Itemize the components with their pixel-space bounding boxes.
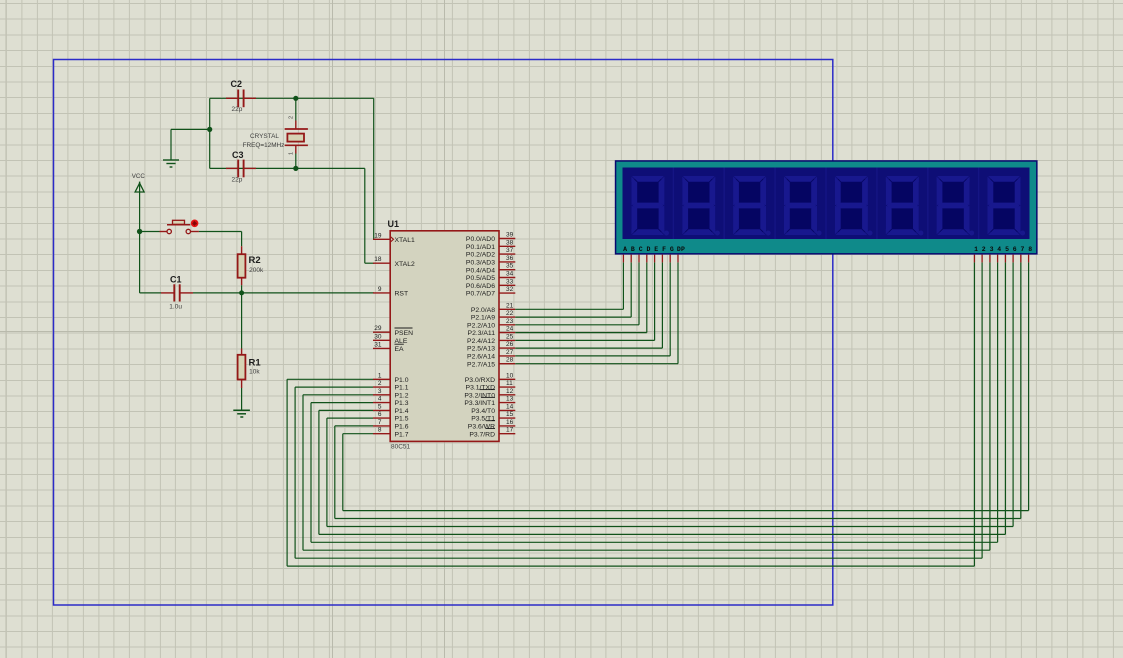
svg-text:11: 11	[506, 380, 513, 387]
wire P2.5 to display segment F	[515, 262, 662, 348]
display digit separator 1	[672, 168, 674, 240]
svg-text:P2.7/A15: P2.7/A15	[467, 361, 495, 368]
resistor R1	[238, 349, 246, 411]
svg-text:80C51: 80C51	[391, 444, 411, 451]
svg-text:P3.5/T1: P3.5/T1	[471, 416, 495, 423]
svg-text:PSEN: PSEN	[395, 330, 414, 337]
svg-text:P0.0/AD0: P0.0/AD0	[466, 236, 495, 243]
svg-text:23: 23	[506, 318, 514, 325]
display digit 3 (7-segment 8)	[733, 176, 771, 236]
wire P2.3 to display segment D	[515, 262, 647, 332]
display digit pin 4 stub	[997, 255, 999, 263]
red actuator dot (button)	[191, 220, 199, 228]
wire crystal bottom lead	[295, 154, 297, 169]
svg-text:25: 25	[506, 333, 514, 340]
svg-text:28: 28	[506, 357, 514, 364]
pin 19 XTAL1 (U1 left)	[373, 232, 415, 244]
label 80C51	[391, 444, 411, 451]
display digit separator 4	[825, 168, 827, 240]
pin 13 P3.3/INT1 (U1 right)	[464, 396, 515, 408]
svg-text:2: 2	[378, 380, 382, 387]
svg-text:29: 29	[374, 325, 382, 332]
svg-text:CRYSTAL: CRYSTAL	[250, 133, 279, 140]
wire P1.0 to display digit 1	[287, 262, 974, 566]
svg-text:EA: EA	[395, 346, 405, 353]
svg-text:4: 4	[997, 246, 1001, 253]
node junction vcc-button	[137, 229, 142, 234]
svg-text:22p: 22p	[232, 177, 243, 184]
svg-text:6: 6	[1013, 246, 1017, 253]
pin 29 PSEN (U1 left)	[373, 325, 413, 337]
pin 22 P2.1/A9 (U1 right)	[471, 310, 515, 322]
capacitor C2	[226, 90, 256, 108]
display segment pin C stub	[638, 255, 640, 263]
svg-text:17: 17	[506, 427, 514, 434]
display digit separator 5	[876, 168, 878, 240]
pin 23 P2.2/A10 (U1 right)	[467, 318, 515, 330]
svg-text:P1.5: P1.5	[395, 416, 409, 423]
svg-text:30: 30	[374, 333, 382, 340]
svg-text:1: 1	[974, 246, 978, 253]
pin 4 P1.3 (U1 left)	[373, 396, 409, 408]
svg-text:P1.3: P1.3	[395, 400, 409, 407]
svg-text:P1.6: P1.6	[395, 424, 409, 431]
pin 12 P3.2/INT0 (U1 right)	[464, 388, 515, 400]
pin 36 P0.3/AD3 (U1 right)	[466, 255, 515, 267]
svg-text:DP: DP	[677, 246, 685, 253]
display digit pin 7 stub	[1020, 255, 1022, 263]
svg-text:38: 38	[506, 239, 514, 246]
svg-text:P3.7/RD: P3.7/RD	[469, 431, 495, 438]
svg-text:C1: C1	[170, 275, 182, 285]
display pin label F	[662, 246, 666, 253]
svg-text:A: A	[623, 246, 627, 253]
wire ground branch	[171, 129, 210, 159]
label C3	[232, 150, 244, 160]
svg-text:C: C	[639, 246, 643, 253]
wire vcc to button	[140, 231, 160, 233]
wire P1.4 to display digit 5	[319, 262, 1006, 534]
pin 34 P0.5/AD5 (U1 right)	[466, 271, 515, 283]
value 200k	[249, 267, 264, 274]
svg-text:36: 36	[506, 255, 514, 262]
svg-text:10: 10	[506, 372, 514, 379]
pin 32 P0.7/AD7 (U1 right)	[466, 286, 515, 298]
wire XTAL1 net top	[210, 98, 374, 239]
display pin label 6	[1013, 246, 1017, 253]
pin 15 P3.5/T1 (U1 right)	[471, 411, 515, 423]
svg-text:P2.5/A13: P2.5/A13	[467, 346, 495, 353]
display digit separator 3	[774, 168, 776, 240]
wire XTAL2 net bottom	[210, 168, 374, 263]
svg-text:39: 39	[506, 232, 514, 239]
wire P1.7 to display digit 8	[343, 262, 1029, 510]
wire P1.2 to display digit 3	[303, 262, 990, 550]
svg-text:E: E	[654, 246, 658, 253]
svg-text:13: 13	[506, 396, 514, 403]
wire vcc-node down to C1	[140, 232, 161, 293]
svg-text:P3.4/T0: P3.4/T0	[471, 408, 495, 415]
pin 16 P3.6/WR (U1 right)	[468, 419, 516, 431]
pin 2 P1.1 (U1 left)	[373, 380, 409, 392]
svg-text:XTAL2: XTAL2	[395, 261, 415, 268]
pin 8 P1.7 (U1 left)	[373, 427, 409, 439]
display pin label 1	[974, 246, 978, 253]
value FREQ=12MHz	[243, 142, 285, 149]
display digit 7 (7-segment 8)	[937, 176, 975, 236]
pin 10 P3.0/RXD (U1 right)	[465, 372, 516, 384]
svg-text:27: 27	[506, 349, 514, 356]
wire RST net	[193, 292, 374, 294]
svg-text:XTAL1: XTAL1	[395, 237, 415, 244]
svg-text:10k: 10k	[249, 369, 260, 376]
svg-text:P0.6/AD6: P0.6/AD6	[466, 283, 495, 290]
svg-text:P2.1/A9: P2.1/A9	[471, 315, 495, 322]
wire P1.1 to display digit 2	[295, 262, 982, 558]
svg-text:U1: U1	[388, 219, 400, 229]
display digit separator 2	[723, 168, 725, 240]
display digit pin 1 stub	[973, 255, 975, 263]
display pin label 4	[997, 246, 1001, 253]
display digit 8 (7-segment 8)	[988, 176, 1026, 236]
svg-text:P2.3/A11: P2.3/A11	[468, 330, 496, 337]
display pin label 7	[1021, 246, 1025, 253]
display inner window	[623, 168, 1030, 240]
ground symbol (oscillator)	[163, 160, 179, 167]
pin 35 P0.4/AD4 (U1 right)	[466, 263, 515, 275]
display pin label E	[654, 246, 658, 253]
svg-text:P3.3/INT1: P3.3/INT1	[464, 400, 495, 407]
svg-text:12: 12	[506, 388, 514, 395]
pin 11 P3.1/TXD (U1 right)	[466, 380, 516, 392]
svg-text:22p: 22p	[232, 106, 243, 113]
svg-text:6: 6	[378, 411, 382, 418]
pin 25 P2.4/A12 (U1 right)	[467, 333, 515, 345]
svg-text:200k: 200k	[249, 267, 264, 274]
svg-text:R2: R2	[249, 255, 261, 266]
pin number 2 (crystal)	[289, 116, 295, 119]
svg-text:C2: C2	[231, 79, 243, 89]
label R1	[249, 358, 262, 369]
svg-text:2: 2	[982, 246, 986, 253]
svg-text:26: 26	[506, 341, 514, 348]
wire P2.0 to display segment A	[515, 262, 623, 309]
svg-text:P2.0/A8: P2.0/A8	[471, 307, 495, 314]
svg-text:FREQ=12MHz: FREQ=12MHz	[243, 142, 285, 149]
svg-text:P3.2/INT0: P3.2/INT0	[464, 392, 495, 399]
pin 26 P2.5/A13 (U1 right)	[467, 341, 515, 353]
svg-text:B: B	[631, 246, 635, 253]
wire button to R2	[199, 232, 242, 247]
pin 9 RST (U1 left)	[373, 286, 408, 298]
pin 6 P1.5 (U1 left)	[373, 411, 409, 423]
svg-text:35: 35	[506, 263, 514, 270]
node junction osc-left	[207, 127, 212, 132]
wire P2.2 to display segment C	[515, 262, 639, 324]
wire P2.7 to display segment DP	[515, 262, 678, 363]
svg-text:16: 16	[506, 419, 514, 426]
svg-text:P0.2/AD2: P0.2/AD2	[466, 252, 495, 259]
display pin label D	[647, 246, 651, 253]
pin 17 P3.7/RD (U1 right)	[469, 427, 515, 439]
pin 38 P0.1/AD1 (U1 right)	[466, 239, 515, 251]
svg-text:37: 37	[506, 247, 514, 254]
wire crystal top lead	[295, 98, 297, 120]
svg-text:7: 7	[378, 419, 382, 426]
svg-text:1: 1	[289, 152, 295, 155]
svg-text:1: 1	[378, 372, 382, 379]
schematic sheet border	[54, 60, 833, 606]
svg-text:22: 22	[506, 310, 514, 317]
svg-text:R1: R1	[249, 358, 262, 369]
display digit pin 6 stub	[1012, 255, 1014, 263]
label C1	[170, 275, 182, 285]
svg-text:3: 3	[378, 388, 382, 395]
svg-text:19: 19	[374, 232, 382, 239]
display pin label DP	[677, 246, 685, 253]
resistor R2	[238, 246, 246, 293]
pin 1 P1.0 (U1 left)	[373, 372, 409, 384]
svg-text:D: D	[647, 246, 651, 253]
op: U1 80C51 MCU body	[390, 231, 499, 442]
pin number 1 (crystal)	[289, 152, 295, 155]
pin 30 ALE (U1 left)	[373, 333, 408, 345]
display module teal frame	[616, 162, 1036, 253]
capacitor C1	[161, 284, 193, 301]
pin 14 P3.4/T0 (U1 right)	[471, 403, 515, 415]
pin 31 EA (U1 left)	[373, 341, 404, 353]
svg-text:18: 18	[374, 256, 382, 263]
wire R2 to R1	[241, 293, 243, 349]
svg-text:4: 4	[378, 396, 382, 403]
svg-text:P1.7: P1.7	[395, 431, 409, 438]
pin 21 P2.0/A8 (U1 right)	[471, 302, 515, 314]
pin 28 P2.7/A15 (U1 right)	[467, 357, 515, 369]
wire P1.3 to display digit 4	[311, 262, 998, 542]
display digit 4 (7-segment 8)	[784, 176, 822, 236]
svg-text:14: 14	[506, 403, 514, 410]
svg-text:P1.4: P1.4	[395, 408, 409, 415]
label C2	[231, 79, 243, 89]
display pin label 8	[1028, 246, 1032, 253]
svg-text:5: 5	[1005, 246, 1009, 253]
display digit pin 5 stub	[1004, 255, 1006, 263]
display digit separator 6	[927, 168, 929, 240]
pin 24 P2.3/A11 (U1 right)	[468, 326, 516, 338]
display digit separator 7	[978, 168, 980, 240]
svg-text:7: 7	[1021, 246, 1025, 253]
node junction crystal-top	[293, 96, 298, 101]
pin 7 P1.6 (U1 left)	[373, 419, 409, 431]
pin 27 P2.6/A14 (U1 right)	[467, 349, 515, 361]
button (push switch)	[160, 220, 199, 233]
wire P2.4 to display segment E	[515, 262, 654, 340]
pin 18 XTAL2 (U1 left)	[373, 256, 415, 268]
display digit 1 (7-segment 8)	[631, 176, 669, 236]
svg-text:8: 8	[1028, 246, 1032, 253]
display segment pin B stub	[630, 255, 632, 263]
display pin label C	[639, 246, 643, 253]
svg-text:P2.6/A14: P2.6/A14	[467, 354, 495, 361]
display digit 2 (7-segment 8)	[682, 176, 720, 236]
svg-text:P3.1/TXD: P3.1/TXD	[466, 385, 496, 392]
wire P1.6 to display digit 7	[335, 262, 1021, 518]
node junction RST	[239, 290, 244, 295]
svg-text:31: 31	[374, 341, 382, 348]
pin 33 P0.6/AD6 (U1 right)	[466, 278, 515, 290]
svg-text:RST: RST	[395, 291, 409, 298]
svg-text:P2.4/A12: P2.4/A12	[467, 338, 495, 345]
capacitor C3	[226, 160, 256, 178]
svg-text:15: 15	[506, 411, 514, 418]
display pin label A	[623, 246, 627, 253]
svg-text:P3.0/RXD: P3.0/RXD	[465, 377, 495, 384]
value 22p (C3)	[232, 177, 243, 184]
svg-text:32: 32	[506, 286, 514, 293]
node junction crystal-bottom	[293, 166, 298, 171]
power VCC symbol	[132, 173, 146, 192]
svg-text:P1.1: P1.1	[395, 385, 409, 392]
display pin label 3	[990, 246, 994, 253]
svg-text:5: 5	[378, 403, 382, 410]
label CRYSTAL	[250, 133, 279, 140]
svg-text:P0.4/AD4: P0.4/AD4	[466, 267, 495, 274]
display pin label 5	[1005, 246, 1009, 253]
display pin label G	[670, 246, 674, 253]
svg-text:8: 8	[378, 427, 382, 434]
display module outer border	[615, 160, 1038, 254]
display segment pin DP stub	[677, 255, 679, 263]
svg-text:3: 3	[990, 246, 994, 253]
svg-text:P0.3/AD3: P0.3/AD3	[466, 260, 495, 267]
display segment pin G stub	[669, 255, 671, 263]
wire P2.6 to display segment G	[515, 262, 670, 356]
svg-text:P0.1/AD1: P0.1/AD1	[466, 244, 495, 251]
display digit 5 (7-segment 8)	[835, 176, 873, 236]
display segment pin D stub	[646, 255, 648, 263]
display digit 6 (7-segment 8)	[886, 176, 924, 236]
value 1.0u	[169, 304, 182, 311]
value 22p (C2)	[232, 106, 243, 113]
pin 37 P0.2/AD2 (U1 right)	[466, 247, 515, 259]
svg-text:34: 34	[506, 271, 514, 278]
svg-text:P0.7/AD7: P0.7/AD7	[466, 291, 495, 298]
crystal X1	[285, 121, 308, 154]
display segment pin A stub	[622, 255, 624, 263]
ground symbol (R1)	[233, 410, 250, 417]
svg-text:P1.2: P1.2	[395, 392, 409, 399]
svg-text:P0.5/AD5: P0.5/AD5	[466, 275, 495, 282]
display digit pin 3 stub	[989, 255, 991, 263]
svg-text:9: 9	[378, 286, 382, 293]
label R2	[249, 255, 261, 266]
wire VCC down	[139, 182, 141, 232]
svg-text:P2.2/A10: P2.2/A10	[467, 322, 495, 329]
display pin label 2	[982, 246, 986, 253]
display digit pin 8 stub	[1028, 255, 1030, 263]
display segment pin F stub	[661, 255, 663, 263]
wire P1.5 to display digit 6	[327, 262, 1013, 526]
display segment pin E stub	[654, 255, 656, 263]
pin 39 P0.0/AD0 (U1 right)	[466, 232, 515, 244]
value 10k	[249, 369, 260, 376]
svg-text:F: F	[662, 246, 666, 253]
svg-text:2: 2	[289, 116, 295, 119]
label U1	[388, 219, 400, 229]
svg-text:21: 21	[506, 302, 514, 309]
pin 5 P1.4 (U1 left)	[373, 403, 409, 415]
svg-text:24: 24	[506, 326, 514, 333]
display digit pin 2 stub	[981, 255, 983, 263]
display pin label B	[631, 246, 635, 253]
svg-text:P3.6/WR: P3.6/WR	[468, 424, 495, 431]
svg-text:33: 33	[506, 278, 514, 285]
svg-text:P1.0: P1.0	[395, 377, 409, 384]
svg-text:VCC: VCC	[132, 173, 146, 180]
svg-text:G: G	[670, 246, 674, 253]
pin 3 P1.2 (U1 left)	[373, 388, 409, 400]
svg-text:C3: C3	[232, 150, 244, 160]
wire P2.1 to display segment B	[515, 262, 631, 317]
svg-text:1.0u: 1.0u	[169, 304, 182, 311]
